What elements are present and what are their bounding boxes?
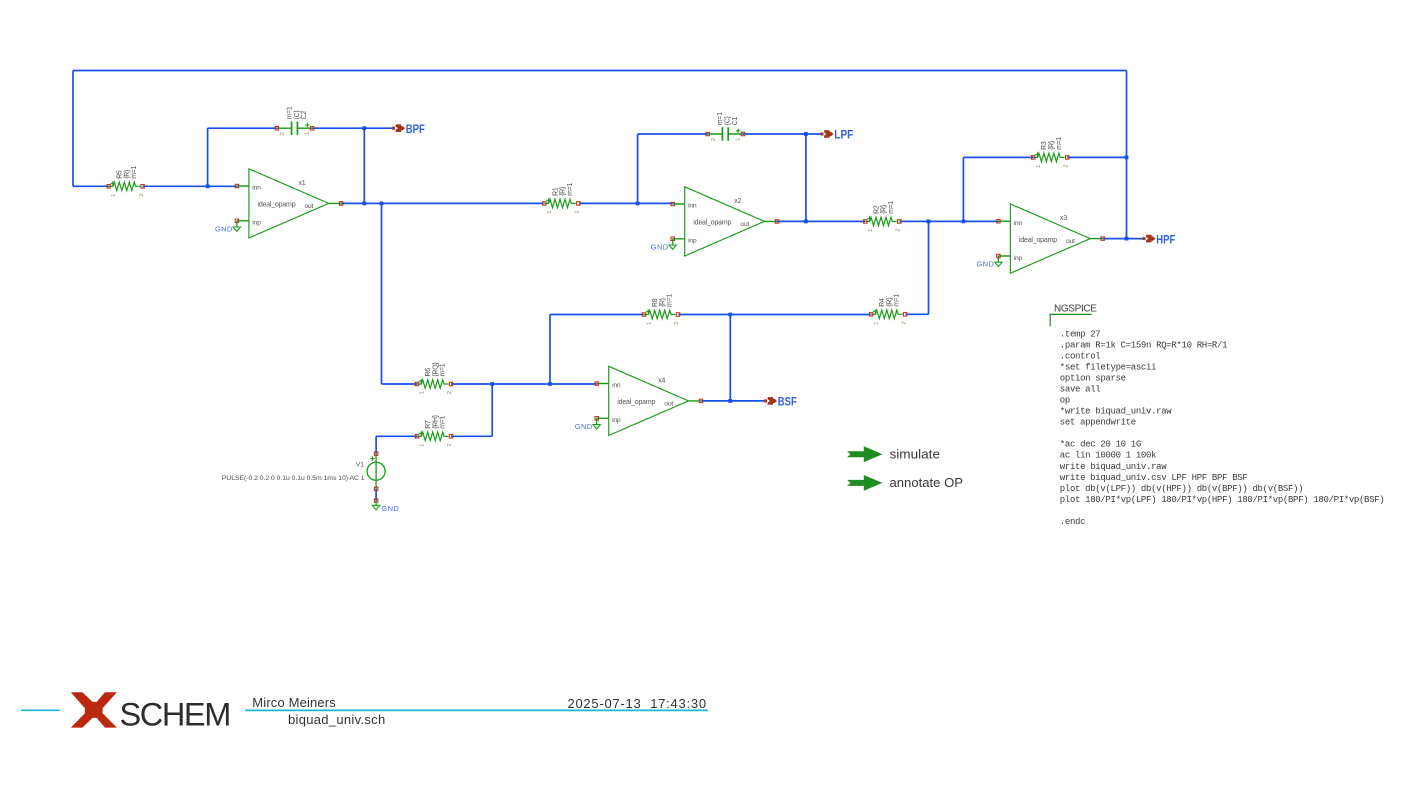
junction (730,400) [728,399,732,403]
launcher arrow annotate OP [847,475,882,491]
wire R7 down to V1 [375,436,377,453]
svg-text:R5{R}m=1: R5{R}m=1 [117,166,139,179]
svg-text:inn: inn [252,185,261,192]
node BPF output flag [392,124,405,132]
wire R3 left segment [963,156,1033,158]
svg-text:2: 2 [711,138,717,141]
svg-text:*write biquad_univ.raw: *write biquad_univ.raw [1060,407,1172,417]
svg-text:set appendwrite: set appendwrite [1060,418,1136,428]
svg-text:.param R=1k C=159n RQ=R*10 RH=: .param R=1k C=159n RQ=R*10 RH=R/1 [1060,340,1227,350]
ground [669,239,676,250]
junction (207,186) [206,184,210,188]
svg-text:ideal_opamp: ideal_opamp [258,202,296,209]
svg-text:GND: GND [575,422,593,431]
junction (364,203) [362,202,366,206]
footer left cyan line [21,709,60,711]
svg-text:2: 2 [280,132,286,135]
svg-text:out: out [664,401,673,408]
svg-text:inp: inp [612,417,621,424]
svg-text:2: 2 [139,193,145,196]
svg-text:SCHEM: SCHEM [120,697,230,733]
wire vertical R6 line to R7 line [491,384,493,436]
wire R2 to x3 inn [900,220,999,222]
x4 pin port inn [595,382,598,385]
junction (730,314) [728,313,732,317]
svg-text:PULSE(-0.2 0.2 0 0.1u 0.1u 0.5: PULSE(-0.2 0.2 0 0.1u 0.1u 0.5m 1ms 10) … [222,475,365,482]
svg-text:out: out [305,203,314,210]
wire R6 left segment [382,383,418,385]
wire V1 minus to GND [375,489,377,501]
wire C2 left segment [208,127,277,129]
footer cyan underline [245,709,708,711]
junction (928,221) [927,220,931,224]
wire vertical x4 inn to R8 line [549,315,551,385]
wire R6 to x4 inn [451,383,597,385]
junction (805,134) [804,132,808,136]
svg-text:2: 2 [896,228,902,231]
x1 pin port inp [235,219,238,222]
svg-text:1: 1 [1036,165,1042,168]
svg-text:x3: x3 [1060,215,1067,222]
resistor R7 [415,431,452,440]
wire x1 out to R1 [341,202,544,204]
svg-text:annotate OP: annotate OP [890,476,964,490]
x3 pin port out [1101,237,1104,240]
op-amp x2 (ideal_opamp) [673,187,777,256]
svg-text:2: 2 [575,210,581,213]
wire vertical x1 inn to C2 [207,128,209,186]
svg-text:LPF: LPF [834,130,853,142]
svg-text:plot 180/PI*vp(LPF) 180/PI*vp(: plot 180/PI*vp(LPF) 180/PI*vp(HPF) 180/P… [1060,495,1385,505]
NGSPICE embed bracket [1050,314,1091,326]
svg-text:R3{R}m=1: R3{R}m=1 [1041,137,1063,150]
svg-text:ideal_opamp: ideal_opamp [1019,237,1057,244]
svg-text:.control: .control [1060,352,1101,362]
junction (637,203) [636,202,640,206]
svg-text:out: out [740,221,749,228]
svg-text:inp: inp [688,238,697,245]
svg-text:write biquad_univ.csv LPF HPF: write biquad_univ.csv LPF HPF BPF BSF [1060,473,1248,483]
resistor R1 [543,198,580,207]
svg-text:1: 1 [111,194,117,197]
resistor R3 [1032,152,1069,161]
wire R1 to x2 inn [579,202,673,204]
wire R3 right segment [1067,156,1126,158]
wire R8 to R4 [679,314,871,316]
junction (1126,157) [1125,156,1129,160]
wire vertical R2 line to R4 line [928,221,930,314]
svg-text:plot db(v(LPF)) db(v(HPF)) db(: plot db(v(LPF)) db(v(HPF)) db(v(BPF)) db… [1060,484,1303,494]
svg-text:R2{R}m=1: R2{R}m=1 [873,201,895,214]
svg-text:biquad_univ.sch: biquad_univ.sch [288,712,386,727]
resistor R8 [642,309,679,318]
wire x3 out to HPF flag [1103,238,1143,240]
op-amp x3 (ideal_opamp) [998,204,1102,273]
wire x1 out down to R6 line [381,203,383,384]
svg-text:2: 2 [901,321,907,324]
svg-text:R6{RQ}m=1: R6{RQ}m=1 [425,362,447,377]
svg-text:x2: x2 [734,198,741,205]
svg-text:BPF: BPF [406,124,425,136]
svg-text:V1: V1 [356,461,365,468]
junction (963,221) [962,220,966,224]
resistor R6 [415,379,452,388]
svg-text:x1: x1 [298,180,305,187]
junction (550,384) [548,382,552,386]
svg-text:save all: save all [1060,385,1101,395]
wire LPF vertical to x2 out [805,134,807,221]
wire x2 out to R2 [777,220,865,222]
wire C1 left segment [638,133,708,135]
x4 pin port out [699,399,702,402]
node BSF output flag [764,397,777,405]
wire vertical x2 inn to C1 [637,134,639,203]
capacitor C2 [275,122,314,135]
wire right vertical HPF feedback [1126,71,1128,239]
svg-text:op: op [1060,396,1070,406]
svg-text:1: 1 [868,229,874,232]
wire x4 out to BSF flag [701,400,764,402]
svg-text:ac lin 10000 1 100k: ac lin 10000 1 100k [1060,451,1156,461]
launcher arrow simulate [847,446,882,462]
wire R5 input segment [73,185,109,187]
wire R7 left segment [376,435,417,437]
svg-text:GND: GND [651,242,669,251]
junction (1126,238) [1125,237,1129,241]
wire R5 to x1 inn [143,185,237,187]
svg-text:*set filetype=ascii: *set filetype=ascii [1060,363,1156,373]
svg-text:1: 1 [874,322,880,325]
svg-text:1: 1 [647,322,653,325]
x4 pin port inp [595,417,598,420]
ground [233,221,240,232]
svg-text:NGSPICE: NGSPICE [1054,303,1097,314]
svg-text:inn: inn [1014,220,1023,227]
svg-text:inn: inn [612,382,621,389]
svg-text:*ac dec 20 10 1G: *ac dec 20 10 1G [1060,440,1141,450]
svg-text:R8{R}m=1: R8{R}m=1 [652,294,674,307]
svg-text:1: 1 [420,391,426,394]
wire left vertical to R5 [72,71,74,187]
svg-text:HPF: HPF [1156,234,1175,246]
op-amp x1 (ideal_opamp) [237,169,341,238]
svg-text:inp: inp [252,220,261,227]
x1 pin port out [340,202,343,205]
junction (364,128) [362,126,366,130]
x3 pin port inn [997,220,1000,223]
svg-text:GND: GND [976,260,994,269]
svg-text:R4{R}m=1: R4{R}m=1 [879,294,901,307]
wire R4 right segment [906,313,929,315]
svg-text:.temp 27: .temp 27 [1060,329,1101,339]
junction (381,203) [380,202,384,206]
svg-text:1: 1 [305,132,311,135]
svg-text:x4: x4 [658,378,665,385]
wire C1 to LPF flag [743,133,821,135]
x1 pin port inn [235,184,238,187]
x3 pin port inp [997,254,1000,257]
svg-text:1: 1 [547,211,553,214]
svg-text:.endc: .endc [1060,517,1085,527]
svg-text:BSF: BSF [778,397,797,409]
svg-text:option sparse: option sparse [1060,374,1126,384]
x2 pin port out [775,220,778,223]
NGSPICE code text [1060,329,1385,527]
wire vertical x3 inn to R3 line [962,157,964,221]
svg-text:1: 1 [420,444,426,447]
svg-text:simulate: simulate [890,448,941,462]
svg-text:write biquad_univ.raw: write biquad_univ.raw [1060,462,1167,472]
junction (805,221) [804,220,808,224]
node LPF output flag [821,130,834,138]
voltage source V1 [367,452,385,491]
svg-text:2: 2 [1063,164,1069,167]
svg-text:GND: GND [215,224,233,233]
svg-text:out: out [1066,238,1075,245]
svg-text:inp: inp [1014,255,1023,262]
x2 pin port inn [671,202,674,205]
ground [995,256,1002,267]
svg-text:2025-07-13 17:43:30: 2025-07-13 17:43:30 [567,696,706,711]
junction (492,384) [490,382,494,386]
resistor R4 [869,309,906,318]
svg-text:ideal_opamp: ideal_opamp [693,220,731,227]
XSCHEM logo X [71,692,117,727]
ground [372,499,380,510]
ground [593,418,600,429]
svg-text:2: 2 [674,322,680,325]
svg-text:m=1{C}C2: m=1{C}C2 [287,106,309,119]
wire BPF vertical to x1 out [363,128,365,203]
svg-text:m=1{C}C1: m=1{C}C1 [717,112,739,125]
svg-text:Mirco Meiners: Mirco Meiners [252,695,336,710]
node HPF output flag [1143,235,1156,243]
wire R8 left segment [550,314,644,316]
svg-text:1: 1 [735,138,741,141]
svg-text:ideal_opamp: ideal_opamp [617,399,655,406]
wire BSF vertical to R8 line [729,315,731,401]
op-amp x4 (ideal_opamp) [597,366,701,435]
svg-text:R1{R}m=1: R1{R}m=1 [552,183,574,196]
svg-text:inn: inn [688,203,697,210]
x2 pin port inp [671,237,674,240]
capacitor C1 [706,127,745,140]
svg-text:2: 2 [447,391,453,394]
wire top feedback HPF to R5 [73,70,1127,72]
svg-text:R7{RH}m=1: R7{RH}m=1 [425,414,447,429]
resistor R5 [107,181,144,190]
svg-text:GND: GND [381,504,399,513]
resistor R2 [864,216,901,225]
wire C2 to BPF flag [312,127,392,129]
svg-text:2: 2 [447,443,453,446]
wire R7 right segment [451,435,492,437]
